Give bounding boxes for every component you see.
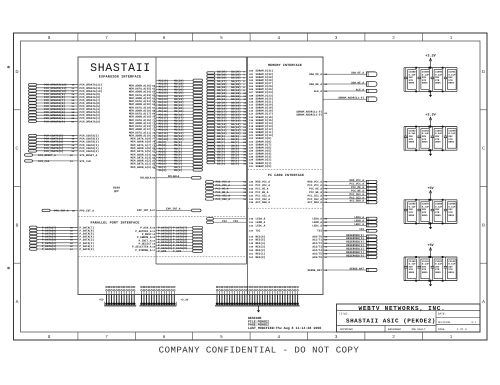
svg-text:RES(0): RES(0) (256, 256, 266, 259)
node EXP_INT_A wire + resistor R102 (137, 208, 201, 213)
svg-text:0805: 0805 (422, 141, 428, 144)
svg-text:P_DATA(0): P_DATA(0) (80, 248, 95, 251)
node RES(2) off-page wire (312, 248, 377, 253)
node SYS_CLK wire (25, 160, 92, 163)
svg-text:MD(0): MD(0) (174, 169, 182, 172)
svg-text:PCM_UPDATA(0): PCM_UPDATA(0) (80, 120, 101, 123)
svg-text:SHASTAII ASIC (PEKOE2): SHASTAII ASIC (PEKOE2) (346, 317, 436, 324)
svg-text:0805: 0805 (435, 271, 441, 274)
node PCC_WE_A off-page wire (309, 190, 377, 195)
svg-text:0805: 0805 (435, 82, 441, 85)
svg-text:0805: 0805 (448, 214, 454, 217)
svg-text:MD(0): MD(0) (159, 169, 167, 172)
svg-text:ALE_A: ALE_A (356, 88, 364, 91)
node SYS_RESET_A wire (25, 154, 98, 157)
svg-text:LAST_MODIFIED:Thu Aug 8 11:14: LAST_MODIFIED:Thu Aug 8 11:14:28 1996 (248, 326, 321, 330)
svg-text:RCLADLA: RCLADLA (168, 175, 180, 178)
capacitor C1103 (444, 257, 456, 281)
capacitor C1094 (431, 127, 443, 151)
svg-text:TDI: TDI (256, 230, 261, 233)
connector J3 parallel port pins + wires (30, 226, 95, 251)
svg-text:LEDC_A: LEDC_A (354, 223, 364, 226)
node RCLK_DLA wire + resistor R101 (140, 175, 201, 180)
svg-text:0805: 0805 (448, 271, 454, 274)
svg-text:REVISION: REVISION (438, 321, 451, 324)
dashed section separators (78, 170, 323, 257)
svg-text:SD(0): SD(0) (217, 163, 225, 166)
capacitor C1091 (444, 68, 456, 92)
svg-text:RCLADLA: RCLADLA (140, 177, 152, 180)
capacitor C1089 (417, 68, 429, 92)
node LEDA_A off-page wire (312, 216, 377, 221)
svg-text:P_STROBE_A: P_STROBE_A (135, 249, 152, 252)
node ACC_SDA_A off-page wire (307, 200, 377, 205)
plot stamp text (248, 316, 321, 330)
svg-text:+3.3V: +3.3V (181, 299, 189, 302)
node RES(1) off-page wire (312, 251, 377, 256)
svg-text:+3.3V: +3.3V (425, 113, 436, 118)
svg-text:MEMORY INTERFACE: MEMORY INTERFACE (268, 63, 302, 67)
PC card pin labels inside memory interface (249, 181, 270, 205)
ground (429, 223, 432, 229)
svg-text:SDRAM_ADDR(11:0): SDRAM_ADDR(11:0) (296, 114, 322, 117)
svg-text:PPD_INT_A: PPD_INT_A (54, 209, 69, 212)
svg-text:152: 152 (249, 256, 254, 259)
svg-text:PAGE: PAGE (438, 328, 445, 331)
svg-text:C: C (482, 146, 485, 151)
SDRAM section pin numbers/labels inside memory interface (249, 70, 274, 168)
memory data wires left of RN1 (156, 79, 193, 172)
node SDA_WE_A off-page wire (309, 81, 377, 86)
node RES(4) off-page wire (312, 241, 377, 246)
svg-text:0805: 0805 (448, 82, 454, 85)
junction dots (415, 256, 444, 282)
svg-text:SENSE_BAT: SENSE_BAT (349, 267, 364, 270)
svg-text:P_STB: P_STB (158, 250, 166, 253)
decoupling bank 2 +3.3V rails (404, 127, 457, 151)
svg-text:0.1: 0.1 (471, 321, 476, 324)
svg-text:P_STB: P_STB (173, 250, 181, 253)
node RES(6) off-page wire (312, 234, 377, 239)
svg-text:+3.3V: +3.3V (425, 54, 436, 59)
confidentiality notice (159, 346, 360, 356)
power +3.3V (425, 113, 436, 127)
svg-text:SDA_WE_A: SDA_WE_A (351, 81, 364, 84)
junction dots (415, 199, 444, 225)
svg-text:131: 131 (249, 165, 254, 168)
resistor pack RN5 parallel port + wires (156, 226, 203, 253)
svg-text:1 OF 9: 1 OF 9 (457, 328, 467, 331)
svg-text:0805: 0805 (422, 82, 428, 85)
resistor pack RN3 pc-card + wires (206, 181, 247, 201)
node PCC_CE1_A off-page wire (307, 193, 377, 198)
svg-text:SYS_CLK: SYS_CLK (80, 160, 92, 163)
capacitor C1097 (417, 200, 429, 224)
junction dots (415, 67, 444, 93)
svg-text:SDA_OE_A: SDA_OE_A (309, 73, 322, 76)
svg-text:SYS_RESET_A: SYS_RESET_A (80, 154, 98, 157)
power pins header +3.3V (140, 286, 189, 306)
svg-text:LEDC_A: LEDC_A (312, 224, 322, 227)
svg-text:ACC_SDA_A: ACC_SDA_A (256, 201, 271, 204)
svg-text:0805: 0805 (422, 271, 428, 274)
node: internal divider memory interface section (247, 57, 249, 295)
svg-text:D: D (15, 69, 18, 74)
capacitor C1100 (404, 257, 416, 281)
svg-text:TDI: TDI (317, 230, 322, 233)
svg-text:RESERVED(0): RESERVED(0) (346, 254, 364, 257)
svg-text:SENSE_BAT: SENSE_BAT (307, 269, 322, 272)
svg-text:142: 142 (249, 224, 254, 227)
svg-text:SHASTAII: SHASTAII (90, 62, 151, 75)
svg-text:136: 136 (249, 201, 254, 204)
capacitor C1093 (417, 127, 429, 151)
decoupling bank 1 +3.3V rails (404, 68, 457, 92)
node PPD_INT_A wire (42, 209, 94, 212)
svg-text:PC CARD INTERFACE: PC CARD INTERFACE (268, 173, 304, 177)
svg-text:ACC_SDA_A: ACC_SDA_A (349, 200, 364, 203)
svg-text:TITLE:: TITLE: (339, 312, 349, 315)
svg-text:APPROVED: APPROVED (340, 328, 353, 331)
misc pin labels inside memory interface lower (249, 218, 266, 259)
svg-text:0805: 0805 (409, 82, 415, 85)
ground (429, 91, 432, 97)
resistor pack RN2 (207, 72, 215, 164)
power +3.3V (425, 54, 436, 68)
junction dots (415, 126, 444, 152)
node SDA_OE_A off-page wire (309, 72, 377, 77)
svg-text:PCM_CDATA(0): PCM_CDATA(0) (80, 150, 100, 153)
U100 title SHASTAII (90, 62, 151, 80)
node LEDC_A off-page wire (312, 223, 377, 228)
capacitor C1102 (431, 257, 443, 281)
capacitor C1095 (444, 127, 456, 151)
svg-text:0805: 0805 (409, 271, 415, 274)
resistor pack RN1 (193, 79, 203, 171)
section label PARALLEL PORT INTERFACE (91, 221, 140, 225)
U100 memory bus pin labels right side (129, 84, 156, 168)
node LEDB_A off-page wire (312, 219, 377, 224)
U100 refdes (113, 187, 120, 194)
power +5V (427, 186, 434, 200)
svg-text:0805: 0805 (409, 214, 415, 217)
capacitor C1098 (431, 200, 443, 224)
resistor pack RN4 tdi + wires (207, 218, 247, 224)
svg-text:SDRAM_D(0): SDRAM_D(0) (256, 165, 273, 168)
svg-text:0805: 0805 (448, 141, 454, 144)
section label PC CARD INTERFACE (268, 173, 304, 177)
ground pins header (215, 286, 300, 312)
svg-text:TDI: TDI (233, 220, 238, 223)
memory data wires right of RN2 to SDRAM section (215, 71, 247, 166)
svg-text:ACC_SDA_A: ACC_SDA_A (307, 201, 322, 204)
svg-text:LEDC_A: LEDC_A (256, 224, 266, 227)
U100 parallel port status pin labels (132, 227, 156, 252)
svg-text:ENGINEER: ENGINEER (388, 328, 401, 331)
svg-text:0805: 0805 (435, 214, 441, 217)
node PCC_CE2_A off-page wire (307, 196, 377, 201)
svg-text:WEBTV NETWORKS, INC.: WEBTV NETWORKS, INC. (358, 305, 445, 312)
capacitor C1092 (404, 127, 416, 151)
svg-text:EXPANSION INTERFACE: EXPANSION INTERFACE (99, 74, 141, 79)
svg-text:0805: 0805 (422, 214, 428, 217)
decoupling bank 3 +5V rails (404, 200, 457, 224)
svg-text:QFP: QFP (114, 190, 119, 193)
ground (429, 150, 432, 156)
svg-text:COMPANY CONFIDENTIAL - DO NOT: COMPANY CONFIDENTIAL - DO NOT COPY (159, 346, 360, 356)
svg-text:SDA_OE_A: SDA_OE_A (351, 72, 364, 75)
svg-text:B: B (482, 222, 485, 227)
svg-text:A: A (16, 299, 19, 304)
svg-text:+5V: +5V (99, 299, 104, 302)
title block (337, 304, 481, 332)
node: internal divider expansion/memory section (156, 57, 246, 264)
section label MEMORY INTERFACE (268, 63, 302, 67)
svg-text:PPD_INT_A: PPD_INT_A (80, 209, 95, 212)
node TDI off-page wire (317, 228, 377, 233)
node ALE_A off-page wire (314, 88, 377, 93)
node PCC_VCC_A off-page wire (307, 183, 377, 188)
svg-text:PCM_CDATA(0): PCM_CDATA(0) (44, 150, 64, 153)
svg-text:DATE:: DATE: (438, 312, 446, 315)
svg-text:SD(0): SD(0) (231, 163, 239, 166)
ground (429, 281, 432, 287)
svg-text:A: A (482, 299, 485, 304)
connector J2 expansion pins + wires (29, 134, 100, 152)
svg-text:EXP_INT_A: EXP_INT_A (137, 209, 152, 212)
node SENSE_BAT off-page wire (307, 267, 377, 272)
op: ASIC U100 SHASTAII outline (78, 57, 323, 295)
svg-text:EXP_INT_A: EXP_INT_A (166, 208, 181, 211)
node RES(5) off-page wire (312, 237, 377, 242)
svg-text:TDI: TDI (359, 228, 364, 231)
svg-text:B: B (16, 222, 19, 227)
svg-text:144: 144 (249, 230, 254, 233)
node RES(3) off-page wire (312, 244, 377, 249)
svg-text:MEM_ADDR_A(0): MEM_ADDR_A(0) (131, 166, 152, 169)
power +5V (427, 243, 434, 257)
svg-text:C: C (15, 146, 18, 151)
svg-text:SYS_CLK: SYS_CLK (38, 160, 50, 163)
svg-text:ALE_A: ALE_A (314, 90, 322, 93)
node HDD_VCC_A off-page wire (307, 179, 377, 184)
svg-text:+5V: +5V (427, 186, 434, 191)
capacitor C1101 (417, 257, 429, 281)
svg-text:0805: 0805 (435, 141, 441, 144)
svg-text:+5V: +5V (427, 243, 434, 248)
capacitor C1090 (431, 68, 443, 92)
svg-text:JOE KELLY: JOE KELLY (411, 328, 426, 331)
node RES(0) off-page wire (312, 254, 377, 259)
connector J1 expansion pins + wires (29, 84, 103, 124)
svg-text:PCC_CE2_A: PCC_CE2_A (216, 198, 231, 201)
power pins header +5V (99, 286, 136, 306)
svg-text:SYS_RESET_A: SYS_RESET_A (38, 154, 56, 157)
capacitor C1088 (404, 68, 416, 92)
svg-text:SDA_WE_A: SDA_WE_A (309, 83, 322, 86)
svg-text:TDI: TDI (222, 220, 227, 223)
node SDRAM_ADDR off-page wire (296, 96, 377, 116)
decoupling bank 4 +5V rails (404, 257, 457, 281)
svg-text:SDRAM_ADDR(11:0): SDRAM_ADDR(11:0) (338, 96, 364, 99)
svg-text:PARALLEL PORT INTERFACE: PARALLEL PORT INTERFACE (91, 221, 140, 225)
capacitor C1096 (404, 200, 416, 224)
svg-text:AC6/T6: AC6/T6 (312, 256, 322, 259)
svg-text:PCM_UPDATA(0): PCM_UPDATA(0) (44, 120, 65, 123)
svg-text:P_DATA(0): P_DATA(0) (42, 248, 57, 251)
node PCC_OE_A off-page wire (309, 186, 377, 191)
capacitor C1099 (444, 200, 456, 224)
svg-text:D: D (482, 69, 485, 74)
svg-text:0805: 0805 (409, 141, 415, 144)
